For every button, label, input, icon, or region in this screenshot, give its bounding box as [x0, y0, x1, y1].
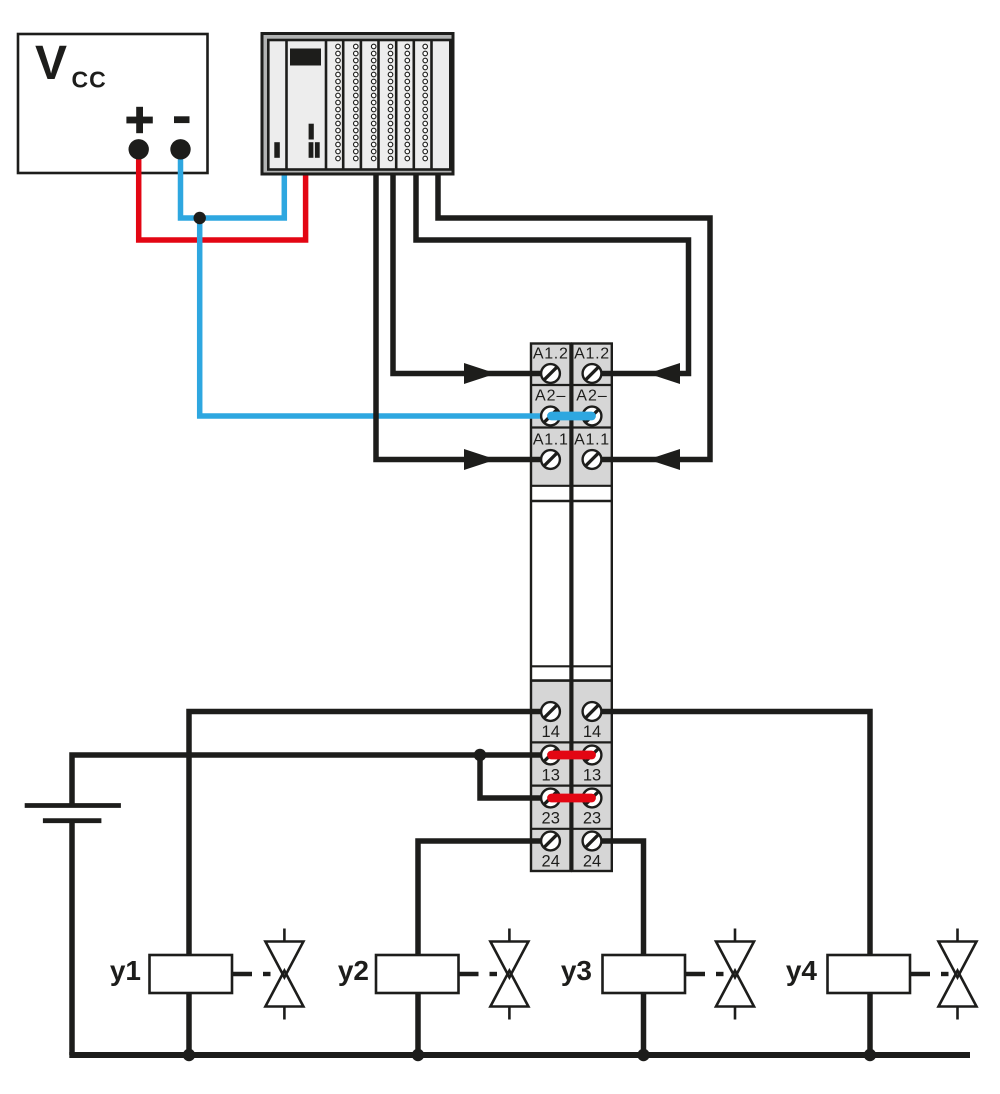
screw terminal 14 left — [541, 702, 560, 721]
terminal - node — [170, 139, 190, 159]
wire branch to terminal 23 — [480, 755, 551, 798]
svg-text:23: 23 — [583, 809, 601, 827]
screw terminal A2 left — [541, 407, 560, 426]
link y3 coil to valve — [686, 972, 724, 976]
wire terminal 24 right to coil y3 — [592, 841, 644, 1055]
valve V3 — [716, 929, 754, 1020]
valve V4 — [939, 929, 977, 1020]
junction node bus y4 — [864, 1049, 876, 1061]
red jumper across 13 terminals — [552, 751, 592, 760]
battery B1 plates — [25, 806, 121, 821]
arrowhead into A1.2 left — [464, 363, 496, 384]
wire terminal 14 right to coil y4 — [592, 712, 870, 1056]
PLC LED column 5 — [405, 44, 410, 161]
junction node 13 branch — [474, 749, 486, 761]
screw terminal 24 right — [583, 832, 602, 851]
power supply Vcc box — [18, 34, 208, 173]
screw terminal 14 right — [583, 702, 602, 721]
svg-text:24: 24 — [542, 852, 560, 870]
wire PLC output to A1.1 left — [376, 171, 551, 460]
arrowhead into A1.2 right — [648, 363, 680, 384]
PLC CPU display — [290, 49, 321, 66]
screw terminal A1.2 right — [583, 364, 602, 383]
svg-text:A1.2: A1.2 — [574, 346, 610, 363]
label + — [126, 107, 152, 133]
relay terminal block K2 right column body — [572, 344, 612, 872]
svg-text:y4: y4 — [786, 955, 818, 986]
svg-text:y1: y1 — [110, 955, 141, 986]
blue jumper across A2 terminals — [552, 412, 592, 421]
svg-text:A2–: A2– — [535, 388, 566, 405]
svg-text:13: 13 — [542, 766, 560, 784]
arrowhead into A1.1 left — [464, 449, 496, 470]
PLC U1 frame — [262, 34, 453, 175]
wire battery to terminal 13 — [72, 755, 551, 806]
svg-text:13: 13 — [583, 766, 601, 784]
PLC LED column 2 — [354, 44, 359, 161]
svg-text:y2: y2 — [338, 955, 369, 986]
relay coil y3 — [603, 955, 686, 993]
svg-text:A1.1: A1.1 — [574, 432, 610, 449]
svg-text:A2–: A2– — [576, 388, 607, 405]
red jumper across 23 terminals — [552, 794, 592, 803]
link y1 coil to valve — [233, 972, 271, 976]
screw terminal 23 right — [583, 789, 602, 808]
junction node bus y1 — [183, 1049, 195, 1061]
wire battery minus to bus — [69, 821, 75, 1055]
relay coil y4 — [828, 955, 911, 993]
screw terminal A1.1 left — [541, 450, 560, 469]
svg-text:y3: y3 — [561, 955, 592, 986]
relay coil y1 — [150, 955, 233, 993]
PLC module1 tick — [274, 142, 280, 158]
link y4 coil to valve — [911, 972, 949, 976]
PLC LED column 4 — [388, 44, 393, 161]
wire blue branch to terminal A2 — [200, 218, 552, 416]
arrowhead into A1.1 right — [648, 449, 680, 470]
screw terminal A1.1 right — [583, 450, 602, 469]
screw terminal A1.2 left — [541, 364, 560, 383]
svg-text:A1.2: A1.2 — [533, 346, 569, 363]
svg-text:23: 23 — [542, 809, 560, 827]
screw terminal 13 left — [541, 746, 560, 765]
svg-text:CC: CC — [72, 67, 107, 93]
screw terminal 24 left — [541, 832, 560, 851]
wire PLC output to A1.1 right — [438, 171, 710, 460]
wire blue from - terminal to PLC — [181, 149, 285, 218]
wire red from + terminal to PLC — [139, 148, 306, 240]
valve V2 — [490, 929, 528, 1020]
PLC CPU ticks — [309, 124, 320, 158]
wire terminal 14 left to coil y1 — [189, 712, 551, 1056]
svg-text:24: 24 — [583, 852, 601, 870]
junction node bus y3 — [637, 1049, 649, 1061]
PLC LED column 6 — [423, 44, 428, 161]
svg-text:14: 14 — [583, 723, 601, 741]
screw terminal 13 right — [583, 746, 602, 765]
wire terminal 24 left to coil y2 — [418, 841, 551, 1055]
relay terminal block K1 left column body — [531, 344, 571, 872]
label - — [174, 116, 190, 123]
wire bottom bus — [69, 1052, 970, 1058]
PLC LED column 1 — [336, 44, 341, 161]
wire PLC output to A1.2 right — [416, 171, 689, 374]
svg-text:14: 14 — [542, 723, 560, 741]
valve V1 — [265, 929, 303, 1020]
screw terminal A2 right — [583, 407, 602, 426]
relay coil y2 — [376, 955, 459, 993]
PLC module dividers — [287, 40, 432, 170]
junction node blue wire — [194, 212, 206, 224]
svg-text:A1.1: A1.1 — [533, 432, 569, 449]
terminal + node — [129, 139, 149, 159]
screw terminal 23 left — [541, 789, 560, 808]
PLC LED column 3 — [371, 44, 376, 161]
svg-text:V: V — [35, 37, 67, 90]
wire PLC output to A1.2 left — [393, 171, 551, 374]
link y2 coil to valve — [459, 972, 497, 976]
junction node bus y2 — [412, 1049, 424, 1061]
